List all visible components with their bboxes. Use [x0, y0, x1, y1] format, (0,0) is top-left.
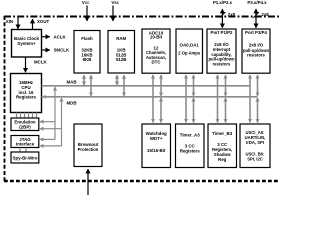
svg-text:Protection: Protection — [78, 147, 99, 152]
signal ACLK — [42, 34, 67, 39]
pin P1.x/P2.x — [213, 0, 236, 28]
wire MDB bus — [42, 95, 258, 106]
svg-text:resistors: resistors — [213, 62, 231, 67]
block RAM — [108, 31, 135, 74]
wire OA column MAB — [185, 75, 187, 122]
block Brownout Protection — [74, 124, 102, 167]
wire P3/P4 column MDB lower — [257, 98, 259, 123]
svg-text:(2BP): (2BP) — [19, 124, 31, 129]
svg-text:P1.x/P2.x: P1.x/P2.x — [213, 0, 233, 5]
svg-text:XOUT: XOUT — [37, 19, 50, 24]
block Spy-Bi-Wire — [11, 152, 39, 163]
signal SMCLK — [42, 48, 70, 53]
svg-text:Interface: Interface — [16, 142, 35, 147]
wire OA column MDB lower — [193, 98, 195, 123]
wire P1/P2 column MAB — [217, 75, 219, 122]
signal MCLK — [26, 57, 48, 72]
svg-text:OA0,OA1: OA0,OA1 — [180, 43, 200, 48]
svg-text:Flash: Flash — [81, 36, 93, 41]
block CPU — [11, 74, 42, 113]
block Timer_B3 — [208, 124, 237, 168]
svg-text:MCLK: MCLK — [34, 60, 48, 65]
pin RST/NMI — [87, 169, 89, 195]
wire P3/P4 column MAB — [249, 75, 251, 122]
svg-text:Brownout: Brownout — [78, 142, 99, 147]
block Port P3/P4 — [242, 29, 270, 73]
wire P1/P2 column MDB lower — [225, 98, 227, 123]
wire OA column MDB upper — [193, 75, 195, 96]
block Flash — [74, 31, 100, 74]
pin XIN — [6, 17, 18, 29]
svg-text:512B: 512B — [116, 57, 127, 62]
svg-text:Registers: Registers — [16, 95, 37, 100]
svg-text:SPI, I2C: SPI, I2C — [247, 156, 263, 161]
block JTAG Interface — [11, 136, 39, 148]
wire MDB drop to Emulation/JTAG — [40, 98, 62, 146]
block USCI — [240, 124, 270, 168]
svg-text:ACLK: ACLK — [54, 34, 67, 39]
pin XOUT — [33, 19, 50, 30]
dashed border bottom — [4, 180, 280, 182]
svg-text:Registers: Registers — [180, 149, 201, 154]
block Timer_A3 — [176, 124, 205, 168]
svg-text:8KB: 8KB — [83, 57, 92, 62]
svg-text:P3.x/P4.x: P3.x/P4.x — [247, 0, 267, 5]
svg-text:2x8: 2x8 — [228, 12, 236, 17]
wire JTAG to Spy-Bi-Wire — [20, 148, 26, 153]
wire MAB drop to Emulation/JTAG — [40, 87, 55, 139]
svg-text:VCC: VCC — [82, 0, 90, 5]
svg-text:XIN: XIN — [6, 19, 13, 24]
block Watchdog WDT+ — [142, 124, 171, 168]
svg-text:2 Op Amps: 2 Op Amps — [178, 51, 201, 56]
svg-text:SMCLK: SMCLK — [54, 48, 70, 53]
svg-text:Timer_B3: Timer_B3 — [212, 131, 232, 136]
wire ADC10 column MDB upper — [160, 75, 162, 96]
svg-text:RAM: RAM — [116, 36, 126, 41]
wire RAM-MAB — [116, 75, 118, 85]
svg-text:10-Bit: 10-Bit — [150, 35, 163, 40]
wire RAM-MDB — [123, 75, 125, 96]
wire ADC10 column MDB lower — [160, 98, 162, 123]
svg-text:MDB: MDB — [67, 101, 77, 106]
svg-text:Port P3/P4: Port P3/P4 — [245, 30, 268, 35]
svg-text:15/16-Bit: 15/16-Bit — [147, 148, 166, 153]
wire MAB bus — [42, 79, 251, 85]
svg-text:IrDA, SPI: IrDA, SPI — [246, 140, 264, 145]
wire CPU-Emulation bus — [17, 113, 37, 119]
svg-text:Reg: Reg — [218, 157, 227, 162]
svg-text:resistors: resistors — [247, 53, 265, 58]
svg-text:MAB: MAB — [67, 79, 77, 84]
svg-text:DTC: DTC — [151, 60, 161, 65]
svg-text:2x8: 2x8 — [261, 12, 269, 17]
svg-text:System+: System+ — [17, 41, 36, 46]
block Basic Clock System+ — [12, 30, 42, 58]
dashed border top — [4, 16, 280, 18]
block OA0 OA1 — [176, 29, 203, 73]
dashed border left — [4, 16, 6, 181]
svg-text:VSS: VSS — [111, 0, 118, 5]
svg-text:2x8 I/O: 2x8 I/O — [249, 43, 264, 48]
wire ADC10 column MAB — [152, 75, 154, 122]
wire P3/P4 column MDB upper — [257, 75, 259, 96]
wire Flash-MAB — [83, 75, 85, 85]
pin VCC — [82, 0, 90, 21]
wire Flash-MDB — [90, 75, 92, 96]
block Emulation (2BP) — [11, 118, 39, 131]
wire P1/P2 column MDB upper — [225, 75, 227, 96]
svg-text:Port P1/P2: Port P1/P2 — [211, 30, 234, 35]
block Port P1/P2 — [207, 29, 236, 73]
svg-text:Timer_A3: Timer_A3 — [180, 133, 200, 138]
pin P3.x/P4.x — [247, 0, 269, 28]
pin VSS — [111, 0, 118, 21]
svg-text:WDT+: WDT+ — [150, 136, 163, 141]
svg-text:Spy-Bi-Wire: Spy-Bi-Wire — [13, 155, 38, 160]
block ADC10 — [142, 29, 170, 73]
